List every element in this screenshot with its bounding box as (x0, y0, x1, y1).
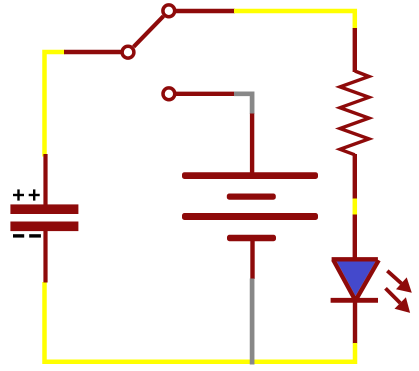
capacitor C1 polarity label -- (13, 234, 41, 237)
wire (yellow, resistor to LED) (353, 199, 358, 216)
LED D1 light arrow 1 (387, 271, 412, 293)
LED D1 triangle right edge (355, 260, 378, 300)
wire (red, battery bottom lead) (250, 240, 254, 279)
wire (red, from throw 1 to node) (176, 9, 235, 13)
wire (red, battery top lead) (250, 114, 254, 174)
switch S1 throw contact 1 (163, 5, 175, 17)
switch S1 throw contact 2 (163, 88, 175, 100)
wire (red, LED cathode lead) (353, 300, 357, 344)
switch S1 lever (134, 16, 164, 47)
battery B1 plate 2 (short -) (227, 194, 276, 200)
capacitor C1 polarity label ++ (13, 189, 40, 200)
wire (yellow, left rail top: from switch feed down left side) (45, 52, 66, 157)
battery B1 plate 4 (short -) (227, 235, 276, 241)
wire (red, capacitor top lead) (43, 154, 47, 208)
switch S1 pole contact (122, 46, 134, 58)
wire (yellow, bottom rail: capacitor bottom to LED bottom) (45, 282, 356, 362)
wire (red, to switch pole) (64, 50, 121, 55)
capacitor C1 top plate (10, 204, 78, 214)
resistor R1 (340, 71, 369, 155)
capacitor C1 bottom plate (10, 222, 78, 232)
wire (gray, battery bottom to bottom rail) (250, 279, 255, 365)
wire (red, from throw 2) (176, 92, 235, 96)
battery B1 plate 1 (long +) (182, 172, 318, 179)
LED D1 triangle left edge (333, 260, 355, 301)
wire (red, resistor bottom lead) (353, 154, 357, 199)
LED D1 cathode bar (331, 298, 378, 303)
battery B1 plate 3 (long +) (182, 213, 318, 220)
wire (gray, throw 2 to battery top) (234, 94, 252, 114)
wire (red, capacitor bottom lead) (43, 228, 47, 283)
wire (yellow, top rail to resistor) (234, 11, 355, 29)
LED D1 triangle top edge (332, 257, 378, 261)
LED D1 triangle blue fill (337, 261, 376, 296)
LED D1 light arrow 2 (386, 288, 411, 313)
wire (red, resistor top lead) (353, 28, 357, 72)
wire (red, LED anode lead) (353, 215, 357, 259)
